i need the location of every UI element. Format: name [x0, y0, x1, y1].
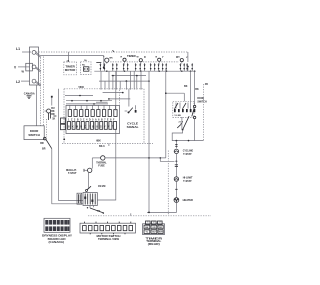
terminal T3 — [139, 59, 142, 62]
svg-text:CANADA: CANADA — [24, 92, 35, 95]
svg-text:BK: BK — [195, 88, 199, 91]
door switch S1 — [24, 126, 52, 151]
console dashed right boundary — [203, 84, 205, 141]
wire heater return — [147, 202, 176, 212]
junction dot — [86, 100, 88, 102]
svg-text:MOTOR: MOTOR — [65, 69, 76, 72]
svg-text:TIMER: TIMER — [127, 54, 136, 58]
wire riser d — [112, 76, 114, 90]
connector J1 outer box — [66, 105, 120, 133]
wire drop to start switch — [187, 52, 189, 62]
wire console jog 1 — [103, 92, 123, 94]
svg-text:5606: 5606 — [79, 86, 85, 89]
junction dot start switch — [187, 66, 189, 68]
wire motor to long riser — [97, 130, 116, 201]
wire long riser to tstat — [160, 158, 174, 161]
svg-text:L2: L2 — [16, 80, 20, 84]
motor switch lever below — [87, 206, 131, 216]
terminal T5 — [180, 59, 183, 62]
junction dot — [71, 100, 73, 102]
wire long riser to bottom — [148, 71, 150, 212]
svg-text:1C2B3C4D5A6B7E8F: 1C2B3C4D5A6B7E8F — [68, 118, 116, 121]
svg-text:RD: RD — [51, 113, 55, 116]
wire riser f — [119, 81, 121, 90]
wire top bus L1 to push-to-start — [36, 51, 188, 53]
wire tstat to heater — [175, 181, 177, 197]
terminal T4 — [158, 58, 161, 61]
wire left vertical riser — [40, 57, 42, 125]
junction dot — [159, 157, 161, 159]
wire L1 supply — [22, 51, 31, 53]
junction dot — [126, 80, 128, 82]
junction dot — [176, 140, 178, 142]
svg-text:T-STAT: T-STAT — [183, 153, 192, 156]
junction dot — [136, 75, 138, 77]
wire push-to-start drop — [103, 56, 105, 67]
wire riser b — [104, 81, 106, 90]
wire second feed to timer — [41, 55, 104, 57]
svg-text:BK: BK — [97, 211, 101, 213]
cycle signal dashed divider — [119, 90, 121, 106]
svg-text:1M 2M: 1M 2M — [98, 185, 105, 188]
wire console jog 2 — [109, 98, 130, 100]
svg-text:BK-6: BK-6 — [99, 145, 105, 148]
belt switch — [177, 116, 189, 130]
svg-text:WH: WH — [159, 232, 163, 234]
regulating thermostat — [66, 158, 92, 175]
wire riser i — [133, 71, 135, 89]
wire riser j — [136, 76, 138, 90]
wire riser g — [125, 81, 127, 90]
svg-text:6BK: 6BK — [96, 141, 101, 143]
timer switch contacts row — [100, 63, 194, 71]
terminal T2 — [123, 58, 126, 61]
wire console inner h0 — [65, 95, 93, 97]
connector J1 pins row 1 — [68, 110, 117, 117]
wire console inner h2 — [66, 103, 108, 105]
junction dot tstat feed — [176, 160, 178, 162]
legend timer terminal table — [143, 221, 165, 246]
svg-text:5 6 BU: 5 6 BU — [175, 115, 182, 117]
svg-text:OR: OR — [152, 227, 156, 229]
junction tick — [113, 50, 115, 52]
wire cluster riser B — [58, 89, 60, 201]
wire riser e — [115, 71, 117, 89]
svg-text:BK: BK — [110, 57, 114, 59]
wire riser to motor switch — [190, 71, 192, 109]
timer motor M2 — [64, 52, 77, 75]
junction dot — [112, 75, 114, 77]
ground CANADA — [24, 92, 35, 98]
svg-text:2 1M: 2 1M — [179, 122, 184, 124]
wire console jog 3 — [96, 101, 108, 103]
legend supply cord table — [42, 218, 73, 244]
heater HTR1 — [174, 198, 193, 203]
junction dot — [148, 80, 150, 82]
wire console inner h1 — [66, 100, 112, 102]
terminal stubs — [107, 61, 182, 63]
centrifugal switch internals — [174, 103, 195, 124]
svg-text:FUSE: FUSE — [98, 165, 105, 168]
svg-text:TERMINAL VIEW: TERMINAL VIEW — [98, 238, 120, 241]
svg-text:1K: 1K — [52, 118, 55, 121]
svg-text:BK: BK — [184, 85, 188, 88]
svg-text:RD: RD — [159, 227, 163, 229]
relay K1 box — [67, 59, 92, 74]
terminal block TB1 — [26, 47, 39, 85]
svg-text:SIGNAL: SIGNAL — [127, 125, 139, 129]
wire bus 1 — [94, 70, 194, 72]
motor M1 assembly — [77, 185, 105, 206]
wire from L2 terminal diagonal — [36, 82, 41, 86]
wire tstat line mid — [175, 154, 177, 177]
wire belt switch to tstat line — [172, 130, 203, 141]
wire V supply — [18, 66, 30, 68]
wire L2 riser to door switch — [35, 85, 37, 126]
cycle signal switch — [125, 105, 139, 129]
svg-text:BK: BK — [145, 227, 149, 229]
svg-text:4B: 4B — [205, 83, 208, 86]
svg-text:HEATER: HEATER — [183, 199, 193, 202]
wire canada dashed riser — [42, 57, 44, 126]
wire terminal bus dashes — [110, 61, 179, 63]
connector left column plugs — [61, 118, 66, 124]
wire tstat main line — [175, 141, 177, 149]
terminal T1 — [105, 58, 109, 62]
wire riser into connector — [115, 71, 117, 110]
wire long riser cabinet left — [165, 69, 167, 158]
cabinet dashed right edge — [167, 151, 169, 216]
junction tick — [175, 188, 177, 190]
wire L2 supply — [21, 80, 30, 82]
junction dot — [188, 140, 190, 142]
svg-text:BKWROYBUGYVT: BKWROYBUGYVT — [68, 127, 115, 129]
legend motor switch table — [80, 222, 136, 242]
wire cluster B to motor — [59, 200, 84, 202]
wire riser c — [108, 71, 110, 89]
cabinet dashed bottom separator — [88, 215, 211, 217]
wire bus 2 — [112, 75, 147, 77]
connector J1 pins row 2 — [68, 122, 117, 130]
svg-text:SWITCH: SWITCH — [28, 133, 40, 137]
svg-text:BR: BR — [42, 147, 46, 150]
svg-text:L1: L1 — [16, 47, 20, 51]
junction dot — [148, 212, 150, 214]
svg-text:NC: NC — [82, 65, 86, 67]
wire riser door switch — [194, 71, 196, 105]
wire bus 3 — [99, 80, 149, 82]
motor centrifugal switch dashed box — [173, 101, 194, 117]
fuse F1 cluster — [45, 96, 57, 121]
hi-limit thermostat — [174, 177, 193, 183]
separator console bottom dashed — [62, 143, 153, 145]
wire riser k — [140, 71, 142, 89]
svg-text:(REAR): (REAR) — [148, 243, 160, 246]
junction dot — [93, 103, 95, 105]
connector pin ticks row1 — [70, 105, 116, 109]
svg-text:BU: BU — [152, 232, 156, 234]
junction dot — [100, 100, 102, 102]
wire from L1 terminal diagonal — [36, 54, 41, 58]
wire cluster riser A — [51, 96, 53, 106]
wire riser h — [130, 71, 132, 89]
svg-text:SWITCH: SWITCH — [197, 101, 206, 104]
thermal fuse F2 — [92, 156, 166, 168]
wire into centrifugal switch — [166, 92, 185, 94]
svg-text:BR: BR — [40, 142, 44, 145]
wire from V terminal diagonal — [36, 68, 41, 72]
junction dot — [165, 92, 167, 94]
console dashed box — [64, 89, 144, 144]
door switch S2 right — [192, 97, 207, 119]
wire door switch drop — [52, 149, 83, 204]
cycling thermostat — [174, 145, 193, 156]
push-to-start switch arm — [96, 62, 101, 64]
wire riser a — [100, 71, 102, 89]
wire cycle signal feed — [128, 89, 130, 107]
svg-text:G: G — [178, 57, 180, 59]
svg-text:T-STAT: T-STAT — [183, 180, 192, 183]
svg-text:(CANADA): (CANADA) — [49, 241, 65, 244]
svg-text:T-STAT: T-STAT — [68, 172, 77, 175]
junction dot console corner — [63, 138, 65, 140]
connector dashes on line — [175, 164, 178, 166]
wire regulating tstat to motor — [87, 172, 89, 189]
